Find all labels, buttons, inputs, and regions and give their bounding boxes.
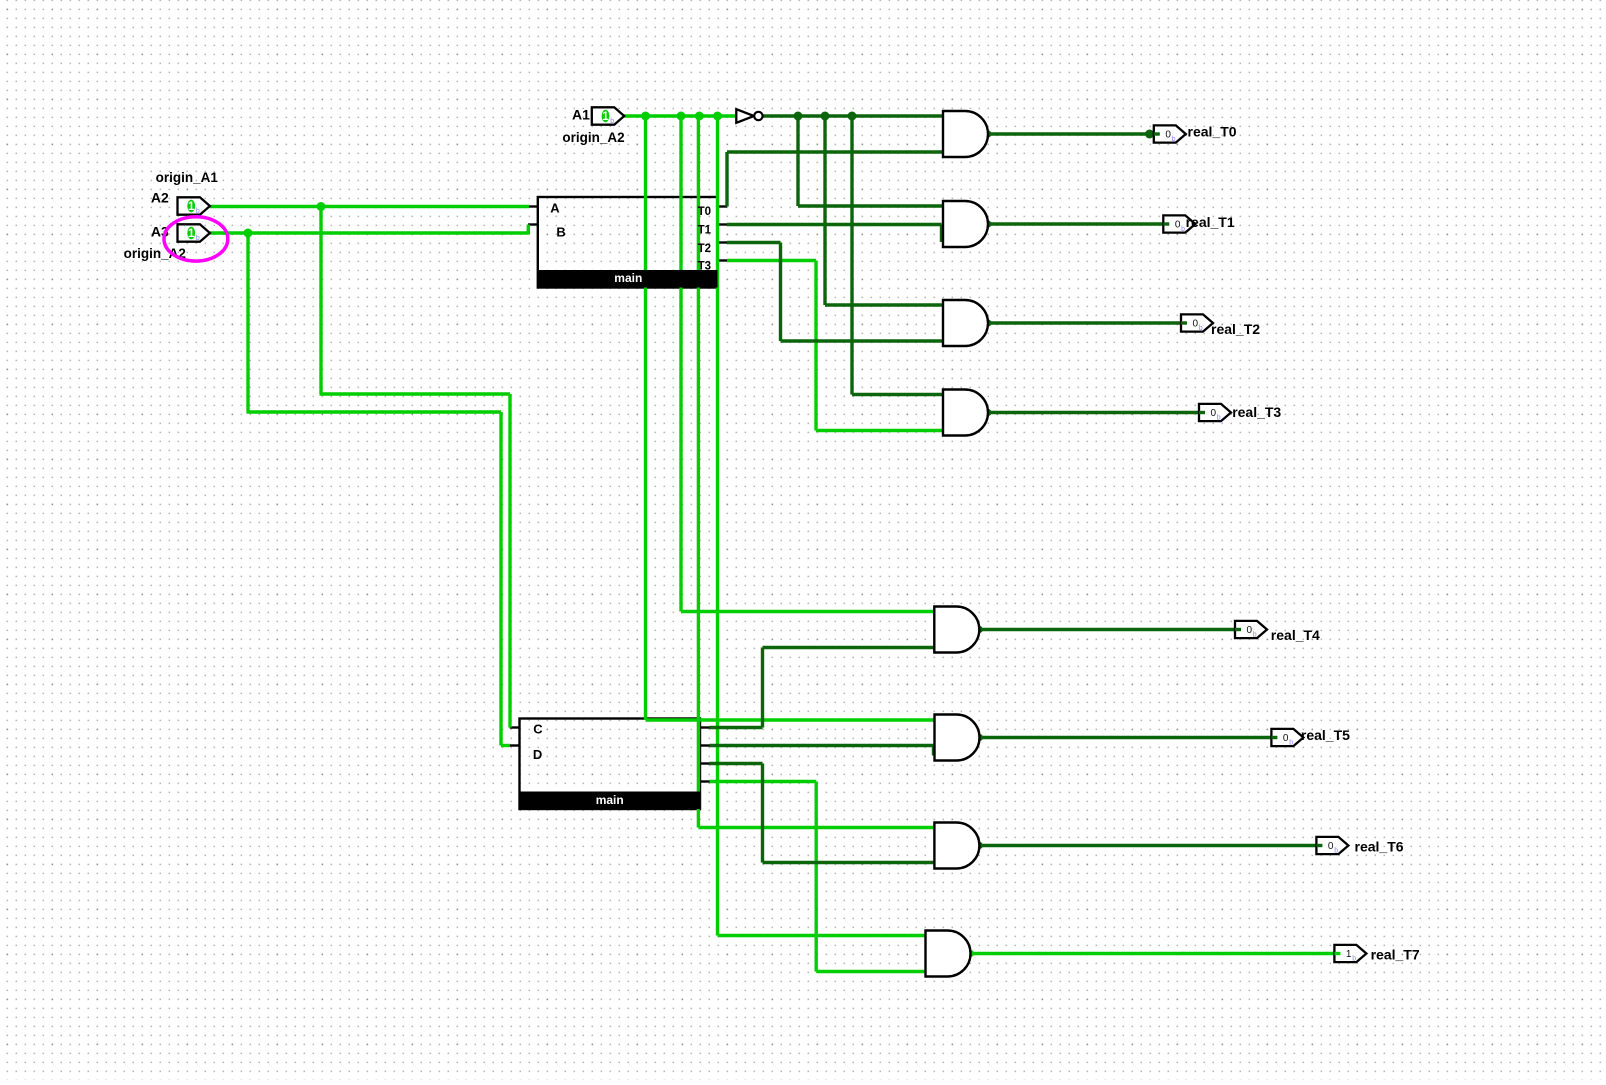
svg-text:b: b	[610, 118, 614, 125]
wire stub into real_T4	[1235, 628, 1241, 631]
wire stub into real_T6	[1316, 844, 1322, 847]
wire east to AND5 top input	[681, 610, 934, 613]
and-gate AND8 (real_T7)	[926, 931, 971, 977]
svg-text:1: 1	[188, 201, 195, 213]
wire east to AND2 top input	[798, 204, 943, 207]
svg-text:b: b	[1217, 414, 1221, 421]
wire jog up to box1.B	[527, 225, 530, 235]
output pin real_T4	[1235, 621, 1267, 638]
svg-text:0: 0	[1175, 220, 1181, 231]
junction x825 on NOT output wire	[821, 112, 830, 121]
AND8 output node	[967, 950, 974, 957]
wire stub into real_T1	[1163, 222, 1169, 225]
svg-text:b: b	[1253, 631, 1257, 638]
wire box1.T0 north	[725, 152, 728, 207]
AND2 output node	[984, 220, 991, 227]
svg-text:real_T7: real_T7	[1371, 947, 1420, 963]
svg-text:0: 0	[1165, 130, 1171, 141]
svg-text:A1: A1	[572, 106, 590, 122]
wire AND6 output to real_T5	[980, 736, 1278, 739]
wire east to AND5 bottom input	[763, 646, 935, 649]
wire box2.out1 east	[710, 726, 763, 729]
svg-text:A2: A2	[151, 189, 169, 205]
svg-text:T0: T0	[698, 206, 711, 218]
pin stub B (box1)	[528, 223, 538, 225]
output pin real_T3	[1199, 404, 1231, 421]
svg-text:1: 1	[1346, 949, 1352, 960]
AND7 output node	[976, 842, 983, 849]
pin stub A (box1)	[528, 205, 538, 207]
svg-text:origin_A2: origin_A2	[124, 246, 186, 261]
magenta highlight ellipse around A3 pin	[164, 217, 228, 261]
input pin A1	[592, 107, 624, 125]
output pin real_T5	[1271, 729, 1303, 746]
wire south x816	[814, 261, 817, 431]
wire jog down to AND2 bottom input	[940, 225, 943, 243]
wire branch x852 south	[850, 116, 853, 395]
and-gate AND7 (real_T6)	[934, 823, 979, 869]
wire east to AND7 top input	[698, 826, 934, 829]
AND6 output node	[976, 734, 983, 741]
svg-text:b: b	[196, 208, 200, 215]
svg-text:real_T4: real_T4	[1271, 627, 1320, 643]
svg-text:0: 0	[1247, 625, 1253, 636]
svg-text:b: b	[1352, 955, 1356, 962]
wire branch x798 south	[796, 116, 799, 206]
svg-text:1: 1	[602, 111, 609, 123]
and-gate AND1 (real_T0)	[943, 111, 988, 157]
output pin real_T7	[1334, 945, 1366, 962]
not-gate U1	[736, 109, 762, 123]
pin stub T3 (box1)	[718, 259, 728, 261]
box2 label bar	[520, 792, 701, 810]
wire stub into real_T2	[1181, 321, 1187, 324]
svg-text:main: main	[596, 793, 624, 807]
subcircuit main (bottom instance) box	[520, 719, 701, 810]
wire south to y745	[499, 412, 502, 746]
junction x717 on A1 wire	[713, 112, 722, 121]
and-gate AND5 (real_T4)	[934, 607, 979, 653]
wire east to AND4 bottom input	[816, 429, 943, 432]
junction x681 on A1 wire	[677, 112, 686, 121]
wire east to x510	[320, 392, 511, 395]
junction x699 on A1 wire	[695, 112, 704, 121]
svg-text:0: 0	[1328, 841, 1334, 852]
AND5 output node	[976, 626, 983, 633]
pin stub out2 (box2)	[700, 744, 711, 746]
wire NOT output east to AND1 top input	[763, 114, 943, 117]
wire box2.out2 east	[710, 744, 934, 747]
box1 label bar	[538, 270, 718, 288]
svg-text:origin_A1: origin_A1	[156, 170, 219, 185]
pin stub out1 (box2)	[700, 726, 711, 728]
wire jog down to AND6 bottom input	[932, 746, 935, 756]
and-gate AND4 (real_T3)	[943, 390, 988, 436]
output pin real_T6	[1316, 837, 1348, 854]
svg-text:0: 0	[1211, 408, 1217, 419]
wire south to box2.C	[508, 394, 511, 728]
output pin real_T1	[1163, 215, 1195, 232]
wire east to box2.D	[501, 744, 510, 747]
svg-text:0: 0	[1283, 733, 1289, 744]
junction on A3 wire	[244, 229, 253, 238]
wire A1 to NOT input	[624, 114, 736, 117]
pin stub C (box2)	[510, 726, 520, 728]
wire east to AND3 bottom input	[781, 339, 944, 342]
wire east to AND4 top input	[852, 393, 943, 396]
wire branch x645 south	[644, 116, 647, 720]
AND3 output node	[984, 319, 991, 326]
wire box1.T2 east	[727, 241, 781, 244]
svg-text:D: D	[533, 747, 542, 762]
svg-text:b: b	[1172, 136, 1176, 143]
wire AND3 output to real_T2	[988, 321, 1187, 324]
wire south x780	[779, 243, 782, 342]
wire stub into real_T0	[1154, 132, 1160, 135]
input pin A2	[178, 197, 210, 215]
wire A2 branch south	[319, 207, 322, 395]
pin stub D (box2)	[510, 744, 520, 746]
wire box2.out4 east	[710, 780, 817, 783]
svg-text:T1: T1	[698, 224, 712, 236]
wire AND8 output to real_T7	[971, 952, 1341, 955]
wire east to AND8 top input	[718, 934, 926, 937]
pin stub out3 (box2)	[700, 762, 711, 764]
pin stub T2 (box1)	[718, 241, 728, 243]
output pin real_T0	[1154, 125, 1186, 142]
svg-text:0: 0	[1193, 319, 1199, 330]
wire box2.out3 east	[710, 762, 763, 765]
wire east to AND6 top input	[646, 718, 935, 721]
svg-text:origin_A2: origin_A2	[562, 130, 624, 145]
wire branch x699 south	[697, 116, 700, 828]
wire AND4 output to real_T3	[988, 411, 1205, 414]
wire south x762	[761, 764, 764, 863]
svg-text:real_T1: real_T1	[1186, 214, 1235, 230]
svg-text:main: main	[614, 271, 642, 285]
AND4 output node	[984, 409, 991, 416]
output pin real_T2	[1181, 314, 1213, 331]
wire north x762	[761, 648, 764, 728]
wire south x816	[815, 782, 818, 972]
junction on A2 wire	[317, 202, 326, 211]
svg-text:real_T2: real_T2	[1211, 321, 1260, 337]
pin stub T1 (box1)	[718, 223, 728, 225]
wire AND7 output to real_T6	[979, 844, 1322, 847]
wire east to AND8 bottom input	[816, 970, 925, 973]
pin stub out4 (box2)	[700, 780, 711, 782]
wire AND5 output to real_T4	[979, 628, 1241, 631]
svg-text:real_T3: real_T3	[1232, 404, 1281, 420]
and-gate AND2 (real_T1)	[943, 201, 988, 247]
svg-text:b: b	[1181, 226, 1185, 233]
svg-text:B: B	[556, 225, 565, 240]
wire box1.T3 east	[727, 259, 816, 262]
svg-text:b: b	[1289, 739, 1293, 746]
and-gate AND3 (real_T2)	[943, 300, 988, 346]
junction before real_T0 pin	[1145, 130, 1154, 139]
subcircuit main (top instance) box	[538, 197, 718, 288]
junction x852 on NOT output wire	[848, 112, 857, 121]
wire branch x681 south	[679, 116, 682, 612]
svg-text:1: 1	[188, 228, 195, 240]
junction x798 on NOT output wire	[794, 112, 803, 121]
svg-text:T2: T2	[698, 243, 711, 255]
wire east to AND7 bottom input	[763, 861, 935, 864]
wire box1.T1 east	[727, 223, 942, 226]
svg-text:b: b	[1199, 325, 1203, 332]
wire stub into real_T5	[1271, 736, 1277, 739]
wire A3 east	[210, 231, 529, 234]
wire branch x717 south	[716, 116, 719, 936]
svg-text:real_T0: real_T0	[1188, 124, 1237, 140]
svg-text:b: b	[196, 235, 200, 242]
wire branch x825 south	[823, 116, 826, 305]
svg-text:A: A	[550, 201, 560, 216]
wire A3 branch south	[246, 233, 249, 412]
and-gate AND6 (real_T5)	[935, 715, 980, 761]
junction x645 on A1 wire	[641, 112, 650, 121]
svg-text:real_T5: real_T5	[1301, 727, 1350, 743]
input pin A3	[178, 224, 210, 242]
wire east to AND3 top input	[825, 303, 943, 306]
wire east to x501	[247, 410, 502, 413]
pin stub T0 (box1)	[718, 205, 728, 207]
wire AND2 output to real_T1	[988, 222, 1169, 225]
wire stub into real_T3	[1199, 411, 1205, 414]
AND1 output node	[984, 130, 991, 137]
wire east to AND1 bottom input	[727, 150, 943, 153]
wire A2 to box1.A	[210, 205, 529, 208]
wire stub into real_T7	[1334, 952, 1340, 955]
svg-text:b: b	[1334, 847, 1338, 854]
svg-text:real_T6: real_T6	[1355, 839, 1404, 855]
wire AND1 output to real_T0	[988, 132, 1160, 135]
svg-text:T3: T3	[698, 261, 711, 273]
svg-text:C: C	[533, 722, 543, 737]
